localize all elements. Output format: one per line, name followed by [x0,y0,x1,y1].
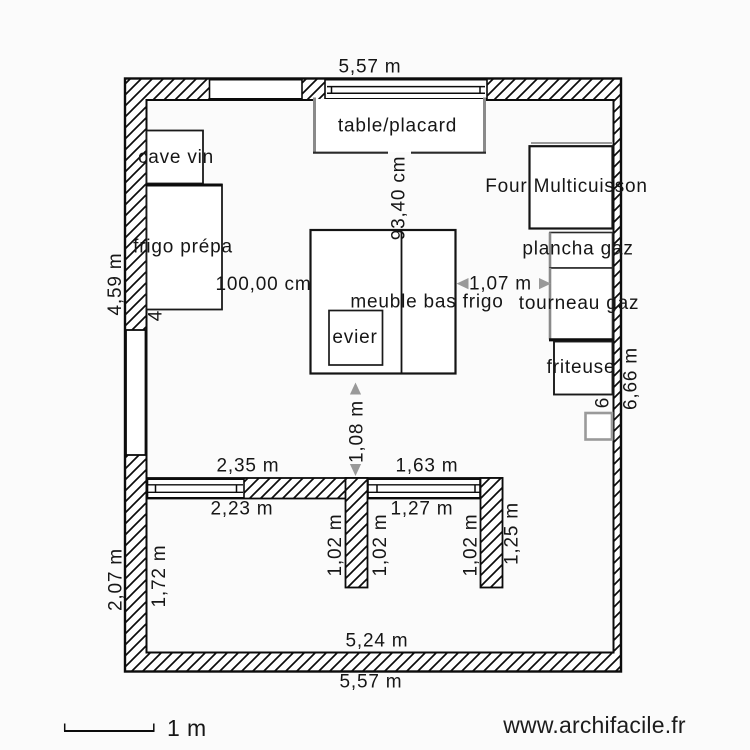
svg-text:5,57 m: 5,57 m [339,57,402,78]
svg-text:frigo prépa: frigo prépa [133,237,233,258]
svg-text:1,02 m: 1,02 m [461,514,482,577]
box meuble bas frigo [311,230,456,374]
interior wall stub 1 [346,478,368,588]
svg-text:93,40 cm: 93,40 cm [389,156,410,241]
svg-text:6: 6 [593,397,614,408]
box cave vin [147,131,204,184]
svg-text:1,02 m: 1,02 m [325,514,346,577]
svg-text:100,00 cm: 100,00 cm [216,274,312,295]
svg-text:1,25 m: 1,25 m [502,502,523,565]
svg-text:2,23 m: 2,23 m [211,499,274,520]
svg-text:5,24 m: 5,24 m [346,631,409,652]
box tourneau gaz [549,268,613,340]
left wall white opening section [126,330,146,455]
svg-text:4: 4 [146,310,167,321]
svg-text:Four Multicuisson: Four Multicuisson [485,176,647,197]
top wall door opening [210,80,303,99]
box frigo prepa [146,185,222,310]
top wall window [325,80,487,99]
svg-text:cave vin: cave vin [138,147,214,168]
box evier [329,311,383,366]
svg-text:1,02 m: 1,02 m [370,514,391,577]
svg-text:meuble bas frigo: meuble bas frigo [350,292,503,313]
svg-text:friteuse: friteuse [547,357,616,378]
interior wall stub 2 [481,478,503,588]
svg-text:1,63 m: 1,63 m [396,456,459,477]
box friteuse [554,342,613,395]
svg-text:www.archifacile.fr: www.archifacile.fr [502,712,686,738]
svg-text:tourneau gaz: tourneau gaz [519,293,640,314]
svg-text:6,66 m: 6,66 m [621,347,642,410]
svg-text:2,35 m: 2,35 m [217,456,280,477]
box Four Multicuisson [530,143,614,229]
svg-text:1,08 m: 1,08 m [347,400,368,463]
svg-text:evier: evier [332,327,377,348]
svg-text:table/placard: table/placard [338,116,457,137]
dimension 1,07 m with arrows [457,274,552,295]
svg-text:5,57 m: 5,57 m [340,672,403,693]
svg-text:2,07 m: 2,07 m [106,548,127,611]
svg-text:1,72 m: 1,72 m [149,545,170,608]
interior window 2 [368,479,480,498]
small gray box [586,413,613,440]
scale bar [64,724,155,732]
wall outer band (hatched ring) [125,79,621,672]
svg-text:4,59 m: 4,59 m [105,253,126,316]
svg-text:1 m: 1 m [167,715,207,741]
box table/placard [313,98,486,154]
svg-text:1,07 m: 1,07 m [469,274,532,295]
box plancha gaz [550,233,613,269]
interior wall horizontal band [147,478,503,499]
dimension 1,08 m with arrows [347,383,368,477]
interior window 1 [148,479,245,498]
svg-text:1,27 m: 1,27 m [391,499,454,520]
svg-text:plancha gaz: plancha gaz [522,239,633,260]
